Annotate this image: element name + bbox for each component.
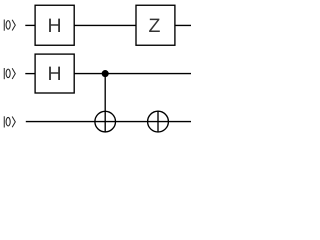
qubit label q1 |0> — [4, 68, 15, 79]
gate Z on q0 — [136, 5, 175, 45]
control dot on q1 (CNOT control) — [102, 70, 109, 77]
wire q0 segment Z to edge — [175, 24, 191, 26]
X gate (circled plus) on q2 — [148, 111, 169, 132]
wire q0 segment label to H — [25, 24, 35, 26]
wire q1 segment H to edge — [74, 73, 191, 75]
wire q1 segment label to H — [25, 73, 35, 75]
qubit label q0 |0> — [4, 20, 15, 31]
wire q0 segment H to Z — [74, 24, 136, 26]
wire q2 — [26, 121, 191, 123]
svg-text:H: H — [48, 15, 62, 37]
svg-text:Z: Z — [148, 15, 160, 37]
control vertical line q1 to q2 — [104, 74, 106, 132]
gate H on q1 — [35, 54, 74, 93]
svg-text:H: H — [48, 63, 62, 85]
qubit label q2 |0> — [4, 116, 15, 127]
gate H on q0 — [35, 5, 74, 45]
CNOT target on q2 — [95, 111, 116, 132]
